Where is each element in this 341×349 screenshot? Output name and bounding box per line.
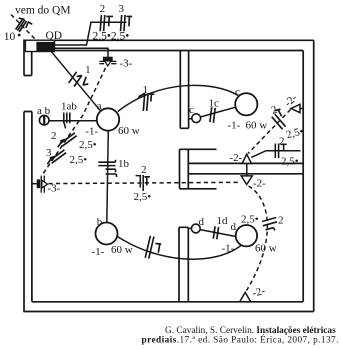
svg-text:2,5•: 2,5• — [79, 139, 97, 151]
wire buzzer to button dashed — [43, 68, 106, 175]
wire feeder from QM dashed — [11, 15, 36, 40]
svg-text:-3-: -3- — [48, 183, 61, 195]
lamp a — [97, 108, 119, 130]
wire internal wall lower vertical — [179, 227, 188, 301]
svg-text:2,5•: 2,5• — [241, 214, 259, 226]
svg-text:1: 1 — [143, 84, 149, 96]
svg-text:2,5•: 2,5• — [70, 154, 88, 166]
svg-text:2: 2 — [51, 130, 57, 142]
wire switch d to lamp d — [200, 230, 236, 237]
wire conduit QD to buzzer — [55, 48, 109, 57]
svg-text:1d: 1d — [217, 215, 229, 227]
wire ceiling arc lamp a to lamp c — [118, 85, 238, 111]
svg-text:60 w: 60 w — [111, 244, 133, 256]
outlet right wall circuit 2 — [291, 104, 303, 112]
wire internal wall middle column — [180, 149, 189, 189]
svg-text:2: 2 — [100, 3, 106, 15]
conductor ticks riser circuit 2 — [100, 15, 113, 31]
lamp b — [96, 223, 118, 245]
svg-text:2,5•2,5•: 2,5•2,5• — [93, 31, 130, 43]
wire door lintel top stub — [180, 148, 217, 150]
svg-text:2,5•: 2,5• — [134, 191, 152, 203]
svg-text:c: c — [189, 104, 194, 116]
buzzer ceiling circuit 3 — [99, 57, 116, 66]
svg-text:2: 2 — [141, 164, 147, 176]
switch d — [191, 224, 200, 233]
svg-text:-2-: -2- — [230, 152, 243, 164]
conductor ticks circuit 1 on arc a-c — [139, 93, 155, 111]
conductor ticks circuit 1 on QD-lamp a run — [69, 72, 89, 87]
svg-text:d: d — [199, 216, 205, 228]
svg-text:G. Cavalin, S. Cervelin. Insta: G. Cavalin, S. Cervelin. Instalações elé… — [165, 326, 336, 336]
buzzer push button left wall circuit 3 — [37, 176, 48, 193]
conductor ticks riser circuit 3 — [121, 15, 133, 31]
outlet above center wall circuit 2 — [242, 154, 251, 163]
svg-text:-2-: -2- — [253, 178, 266, 190]
wire internal wall horizontal band — [188, 163, 303, 173]
distribution board QD — [25, 40, 54, 52]
svg-text:QD: QD — [46, 30, 63, 42]
svg-text:1: 1 — [85, 65, 90, 76]
wire circuit 2 horizontal dashed — [49, 182, 242, 183]
outlet bottom wall circuit 2 — [240, 292, 251, 301]
conductor ticks circuit 2 on ceiling run to button — [58, 133, 77, 147]
wire window sill caps left wall — [24, 76, 32, 112]
switch ab two-section — [39, 115, 49, 125]
svg-text:3: 3 — [46, 147, 52, 159]
svg-text:-3-: -3- — [120, 57, 133, 69]
lamp d — [236, 225, 257, 246]
svg-text:prediais.17.ª ed. São Paulo: É: prediais.17.ª ed. São Paulo: Érica, 2007… — [142, 334, 339, 346]
outlet below center wall circuit 2 — [241, 176, 252, 185]
svg-text:60 w: 60 w — [255, 243, 277, 255]
conductor ticks 1b on lamp a-b run — [98, 160, 116, 177]
conductor ticks circuit 3 on ceiling run to button — [47, 150, 66, 164]
wire outer wall left — [23, 40, 25, 313]
wire buzzer button stub to wall — [32, 183, 38, 185]
conductor ticks circuit 1 on lamp b-d run — [145, 236, 161, 259]
wire lamp a to lamp b — [107, 131, 109, 223]
svg-text:vem do QM: vem do QM — [15, 4, 71, 16]
conductor ticks circuit 2 on wall conduit run — [275, 144, 286, 159]
wire conduit QD to lamp a — [52, 52, 101, 111]
wire inner wall top — [32, 50, 303, 52]
lamp c — [235, 93, 257, 115]
wire inner wall left — [31, 51, 33, 302]
wire internal wall upper vertical — [180, 51, 188, 129]
wire lamp b to lamp d — [117, 237, 241, 260]
wire outlet to outlet dashed curve lower right — [247, 186, 268, 291]
wire inner wall bottom — [32, 301, 303, 303]
svg-text:a: a — [97, 100, 102, 112]
wire connector between back-to-back outlets — [246, 160, 248, 177]
svg-text:10: 10 — [4, 31, 16, 43]
conductor ticks circuit 2 on horizontal dashed run — [136, 175, 150, 191]
conductor ticks circuit 2 on lower-right dashed curve — [262, 218, 277, 231]
wire outlet to outlet dashed diagonal — [248, 110, 291, 154]
conductor ticks 1d on switch d run — [213, 226, 218, 239]
wire outer wall top — [24, 39, 314, 41]
svg-text:c: c — [235, 86, 240, 98]
wire inner wall right — [302, 51, 304, 302]
svg-text:2: 2 — [279, 136, 285, 148]
svg-text:-1-: -1- — [228, 120, 241, 132]
svg-text:-2-: -2- — [251, 285, 267, 300]
wire outer wall bottom — [24, 311, 314, 313]
svg-text:2: 2 — [278, 215, 284, 227]
conductor ticks feeder QM — [16, 18, 33, 32]
wire switch c to lamp c — [200, 107, 235, 117]
switch c — [192, 114, 201, 123]
wire switch c stub to wall — [189, 118, 192, 120]
wire outlet to right wall conduit — [251, 151, 300, 158]
svg-text:-1-: -1- — [85, 125, 98, 137]
wire switch d stub to wall — [188, 227, 191, 229]
conductor ticks 1ab on switch run — [64, 113, 70, 129]
svg-text:-1-: -1- — [92, 246, 105, 258]
svg-text:1c: 1c — [209, 98, 220, 110]
svg-text:a b: a b — [37, 105, 51, 117]
svg-text:60 w: 60 w — [246, 120, 268, 132]
svg-text:-1-: -1- — [222, 243, 235, 255]
svg-text:b: b — [97, 216, 103, 228]
wire switch ab to lamp a — [49, 120, 97, 122]
svg-text:d: d — [231, 221, 237, 233]
svg-text:3: 3 — [119, 3, 125, 15]
wire door lintel bottom stub — [180, 188, 217, 190]
svg-text:1ab: 1ab — [61, 101, 77, 113]
svg-text:60 w: 60 w — [118, 125, 140, 137]
conductor ticks circuit 2 on outlet dashed diagonal — [272, 109, 286, 129]
svg-text:1b: 1b — [118, 158, 130, 170]
wire conduit QD to circuits 2,3 riser — [55, 22, 127, 45]
svg-text:2,5•: 2,5• — [281, 156, 299, 168]
wire outer wall right — [313, 40, 315, 311]
conductor ticks 1c on switch c run — [210, 107, 215, 123]
svg-text:2,5•: 2,5• — [285, 125, 305, 141]
